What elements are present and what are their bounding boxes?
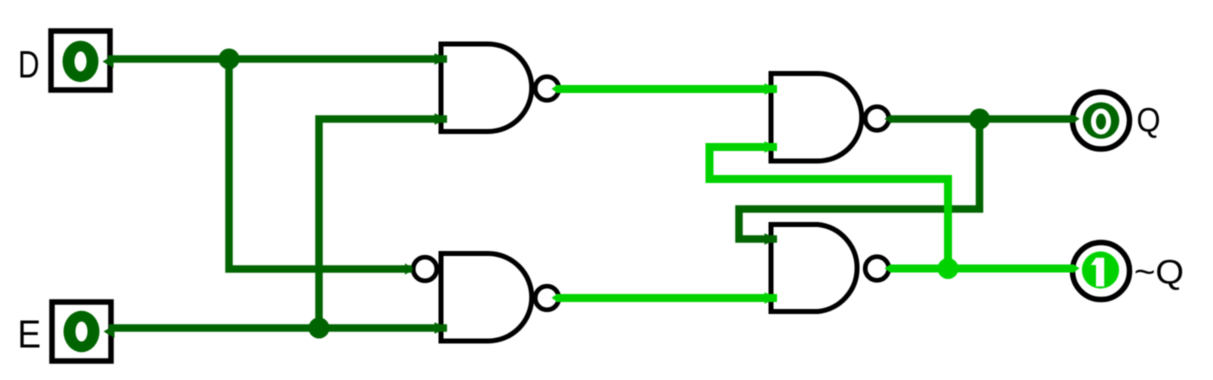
wire node A to U1 top input <box>229 55 447 63</box>
NAND gate U2 (bottom-left, inverted D input) <box>413 254 559 342</box>
node NQ junction <box>938 258 959 279</box>
svg-text:D: D <box>18 45 40 87</box>
svg-text:~Q: ~Q <box>1134 254 1184 292</box>
NAND gate U1 (top-left) <box>441 44 559 132</box>
wire node A down <box>229 59 412 269</box>
input pin D <box>51 31 110 90</box>
output pin ~Q <box>1073 243 1130 300</box>
wire D pin to node A <box>103 55 230 68</box>
NAND gate U4 (bottom-right) <box>771 225 889 312</box>
wire U4 output to node NQ <box>885 264 892 273</box>
node A junction <box>219 49 240 70</box>
wire node Q feedback down <box>739 119 980 239</box>
input pin E <box>52 302 111 361</box>
node B junction <box>309 318 330 339</box>
wire U1 output to U3 top input <box>552 85 559 94</box>
NAND gate U3 (top-right) <box>771 74 889 162</box>
wire node NQ feedback up <box>710 147 949 269</box>
node Q junction <box>969 109 990 130</box>
wire node B up <box>319 119 447 328</box>
wire E pin to node B <box>104 325 320 338</box>
svg-text:E: E <box>18 314 42 357</box>
wire node B to U2 bottom input <box>319 324 447 332</box>
wire U3 output to node Q <box>885 115 892 124</box>
wire U2 output to U4 bottom input <box>552 294 559 303</box>
output pin Q <box>1073 92 1130 149</box>
svg-text:Q: Q <box>1137 102 1161 140</box>
